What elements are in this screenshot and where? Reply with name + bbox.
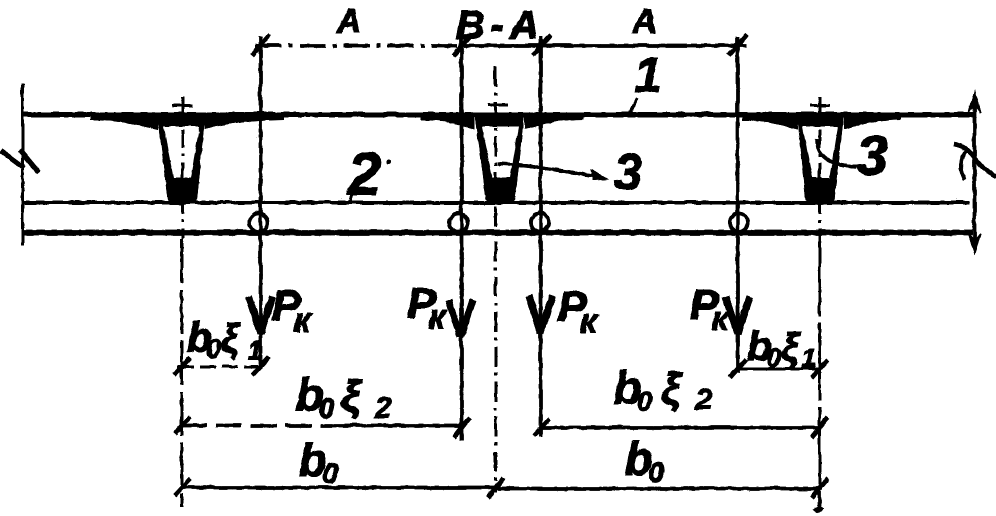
tick b0 right dim left end (at centerline) [487,478,503,497]
svg-text:0: 0 [206,333,221,363]
tick b0xi1 right dim right end [811,359,827,377]
slab bottom line [22,200,969,204]
svg-text:к: к [579,302,598,340]
load arrowhead 3 [528,295,552,332]
rib 3 web interior white [802,126,837,177]
svg-text:0: 0 [318,392,334,423]
wheel circle 1 [249,213,267,231]
right edge top arrowhead (up) [968,91,980,112]
left edge line of slab [21,83,24,245]
tick b0 left end [174,478,190,495]
rib 1 web body fill [157,113,205,205]
svg-text:ξ: ξ [780,325,800,369]
rib 2 web interior white [481,126,518,177]
right edge vertical arrow line [972,96,976,244]
rib 3 centerline (dash-dot through web and below) [818,96,821,238]
svg-text:ξ: ξ [660,364,682,413]
rib 2 left haunch fill [420,113,474,129]
svg-text:0: 0 [648,456,664,487]
top dimension line (dash-dot left span) [255,43,462,47]
tick b0xi1 right dim left end [729,359,745,377]
rib 1 web interior white [163,126,199,177]
left break mark slash 2 [19,149,38,172]
svg-text:A: A [335,2,361,40]
b0xi2 left dimension line [180,423,330,427]
load line 1 [258,36,262,368]
svg-text:0: 0 [322,457,338,488]
svg-text:1: 1 [247,335,261,365]
svg-text:к: к [293,301,312,339]
leader tick for label 2 [348,191,352,203]
rib 3 web body fill [796,113,843,205]
leader tick for label 1 [629,97,637,113]
load line 3 [538,36,542,436]
tick b0 right dim right end [811,478,827,497]
tick at x=260 top dim [251,34,269,55]
rib 1 right haunch fill [204,113,283,129]
rib 1 left haunch fill [90,113,158,129]
svg-text:к: к [711,299,730,337]
svg-text:3: 3 [613,143,642,201]
svg-text:B-A: B-A [455,3,544,47]
load arrowhead 4 [725,296,749,333]
svg-text:1: 1 [634,48,661,102]
load line 2 [459,36,463,440]
rib 2 right haunch fill [524,113,583,129]
wheel circle 2 [449,213,467,231]
svg-text:2: 2 [694,383,712,416]
svg-text:ξ: ξ [220,316,240,360]
rib 3 left haunch fill [742,113,797,129]
b0xi1 right dimension line [735,367,821,370]
wheel circle 4 [729,213,747,231]
rib 2 web body fill [474,113,524,205]
rib 2 top cross tick [487,103,507,106]
slab top line [22,112,973,117]
right break squiggle [953,143,996,176]
svg-text:3: 3 [856,123,887,186]
tick at x=462 top dim [453,34,471,55]
tick b0xi2 left end [174,416,190,433]
leader line for middle 3 with arrowhead [497,163,598,176]
rib 1 centerline (dash-dot through web and below) [181,96,184,238]
bottom end arrow on rib3 extension [817,488,821,509]
left break mark slash 1 [0,150,23,167]
top dimension line (solid right span) [462,43,746,47]
bottom chord line [22,229,972,235]
speckle dot [386,159,391,164]
section centerline (B-A axis, dash-dot) [494,66,497,492]
tick b0xi1 left end [174,357,190,374]
leader line for right 3 [816,138,856,166]
load arrowhead 2 [448,299,472,336]
right edge bottom arrowhead (down) [968,233,980,253]
tick at x=737 top dim [728,34,746,55]
right break hook [960,150,966,179]
tick b0xi2 right end [453,417,469,437]
load line 4 [735,36,739,372]
svg-text:0: 0 [636,385,652,416]
b0 right dimension line [495,486,822,490]
b0 left dimension line [180,485,497,489]
tick b0xi2 right dim right end [811,417,827,437]
b0xi1 left dimension line [177,365,263,368]
rib 1 top cross tick [172,104,192,107]
tick at x=541 top dim [532,34,550,55]
svg-text:A: A [631,2,657,40]
svg-text:к: к [428,298,447,336]
rib 3 right haunch fill [843,113,900,129]
rib 3 top cross tick [809,104,829,107]
b0xi2 right dimension line [540,425,821,429]
svg-text:2: 2 [373,391,391,424]
tick b0xi1 right end [252,357,268,374]
load arrowhead 1 [248,296,272,333]
tick b0 left at centerline [487,477,503,497]
tick b0xi2 right dim left end [533,418,549,435]
svg-text:1: 1 [801,342,815,372]
svg-text:ξ: ξ [340,371,362,420]
wheel circle 3 [530,213,548,231]
svg-text:0: 0 [766,342,781,372]
